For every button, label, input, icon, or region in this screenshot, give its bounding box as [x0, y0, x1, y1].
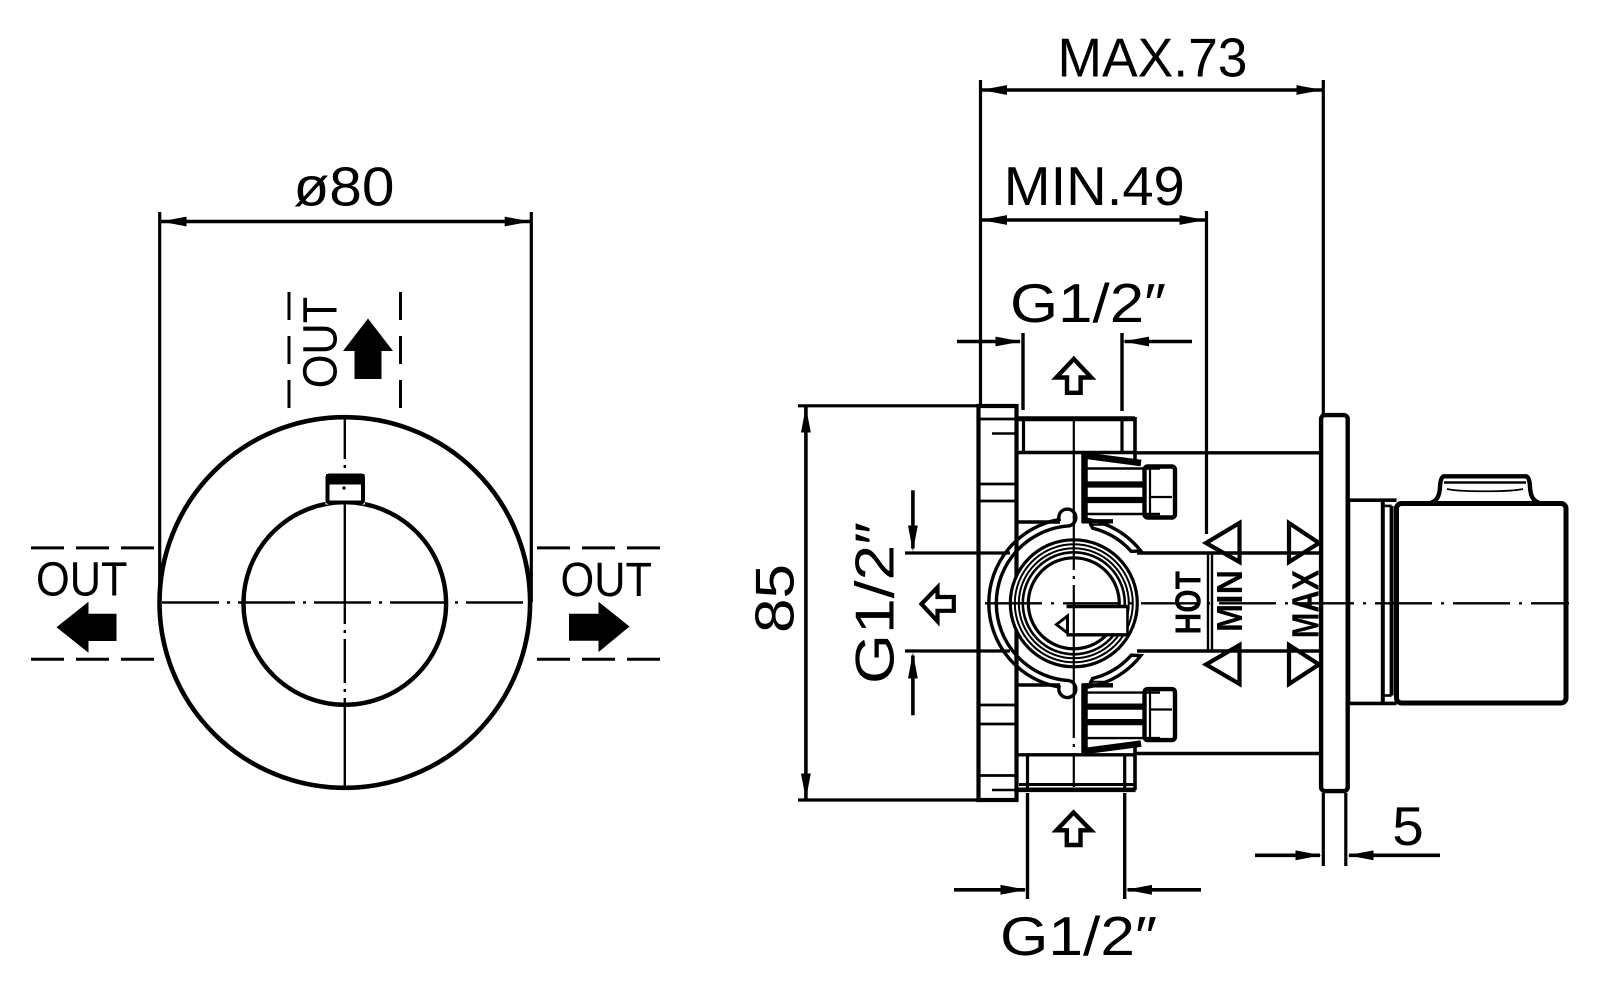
G1/2 top extension line left [1021, 333, 1024, 410]
keyway notch on inner circle [326, 474, 366, 505]
left OUT solid arrow [57, 602, 117, 653]
stem cylinder line lower [1137, 649, 1322, 652]
bottom G1/2 extension line left [1026, 793, 1029, 899]
bottom G1/2 dim arrow right [1126, 885, 1201, 895]
cartridge collar segment top-right [1089, 520, 1141, 552]
svg-text:OUT: OUT [561, 554, 653, 607]
dimension ø80 extension line left [158, 212, 161, 602]
svg-text:OUT: OUT [36, 553, 128, 606]
top OUT port dashed line right [399, 292, 402, 412]
bottom G1/2 threaded port [1082, 682, 1175, 753]
MAX marker hollow triangle top [1289, 523, 1319, 562]
top OUT solid arrow [343, 319, 393, 380]
bottom G1/2 dim arrow left [954, 885, 1027, 895]
G1/2 top extension line right [1120, 333, 1123, 411]
bore line upper (left port) [905, 551, 1010, 554]
stem cylinder line upper [1137, 551, 1322, 554]
dimension 5 arrow left [1255, 850, 1322, 860]
dimension 85 extension line top [798, 404, 978, 407]
left OUT dashed line top [31, 546, 154, 549]
dimension 5 arrow right [1348, 850, 1441, 860]
top OUT port dashed line left [288, 292, 291, 412]
collar connect line top [1017, 520, 1061, 523]
outer circle (ø80 escutcheon) [159, 417, 530, 788]
MIN marker hollow triangle bottom [1206, 645, 1240, 684]
dimension 5 extension line right [1344, 793, 1347, 866]
dimension MAX.73 arrow left [981, 85, 1007, 95]
dimension MAX.73 extension line right [1322, 80, 1325, 416]
mounting flange plate [979, 406, 1017, 800]
dimension ø80 arrow right [505, 217, 531, 227]
horizontal center line of front view [162, 601, 530, 603]
svg-text:ø80: ø80 [294, 156, 395, 218]
collar connect line bottom [1017, 683, 1061, 686]
handle knob top button [1431, 476, 1540, 503]
mounting box silhouette bottom [1135, 752, 1322, 755]
spindle tab inside cartridge [1057, 607, 1128, 635]
cartridge concentric rings [1010, 540, 1137, 667]
dimension MAX.73 arrow right [1297, 85, 1323, 95]
dimension 5 extension line left [1322, 793, 1325, 866]
dimension ø80 arrow left [161, 217, 187, 227]
mounting box silhouette top [1135, 451, 1322, 454]
dimension 85 line [804, 407, 808, 800]
dimension MIN.49 arrow right [1180, 215, 1206, 225]
svg-text:G1/2″: G1/2″ [1010, 272, 1166, 334]
G1/2 left dim arrow top [908, 490, 918, 551]
dimension MAX.73 line [981, 88, 1324, 92]
left OUT dashed line bottom [31, 658, 154, 661]
right OUT dashed line bottom [537, 658, 661, 661]
G1/2 top dim arrow left [957, 337, 1022, 347]
dimension 85 arrow bottom [801, 774, 811, 800]
svg-text:MIN.49: MIN.49 [1004, 155, 1185, 217]
svg-text:85: 85 [744, 564, 806, 633]
dimension ø80 extension line right [530, 212, 533, 602]
handle sleeve [1349, 500, 1397, 703]
bore line lower (left port) [905, 649, 1010, 652]
dimension MIN.49 arrow left [981, 215, 1007, 225]
svg-text:OUT: OUT [295, 297, 348, 389]
handle knob [1397, 504, 1567, 704]
vertical center line of front view [344, 415, 346, 790]
MIN marker hollow triangle top [1206, 523, 1240, 562]
wall escutcheon plate [1321, 415, 1348, 791]
top inlet hollow arrow [1056, 359, 1091, 393]
svg-text:G1/2″: G1/2″ [1000, 905, 1157, 967]
left outlet hollow arrow [922, 587, 954, 621]
inner circle (handle boss) [243, 502, 446, 705]
valve body top boss [1017, 417, 1136, 463]
MIN marker double line [1208, 554, 1212, 651]
dimension MAX.73 extension line left [979, 80, 982, 404]
svg-text:MAX.73: MAX.73 [1058, 26, 1248, 88]
vertical center line of body [1073, 417, 1075, 787]
dimension 85 extension line bottom [798, 798, 978, 801]
bottom inlet hollow arrow [1057, 813, 1092, 846]
dimension MIN.49 line [981, 218, 1207, 222]
top G1/2 threaded port [1082, 454, 1175, 525]
valve body bottom boss [1016, 743, 1136, 790]
dimension ø80 line [160, 220, 531, 224]
svg-text:5: 5 [1392, 795, 1424, 857]
cartridge collar segment bottom-right [1089, 655, 1141, 687]
dimension 85 arrow top [801, 407, 811, 433]
svg-text:MIN: MIN [1209, 570, 1250, 632]
MAX marker hollow triangle bottom [1289, 645, 1319, 684]
dimension MIN.49 extension line right [1205, 211, 1208, 534]
right OUT dashed line top [537, 546, 661, 549]
G1/2 top dim arrow right [1123, 337, 1192, 347]
svg-text:G1/2″: G1/2″ [844, 522, 906, 684]
horizontal center line of section [985, 602, 1569, 604]
bottom G1/2 extension line right [1123, 793, 1126, 899]
right OUT solid arrow [569, 602, 630, 652]
G1/2 left dim arrow bottom [908, 653, 918, 716]
cartridge collar C-shape (left) [989, 509, 1076, 697]
